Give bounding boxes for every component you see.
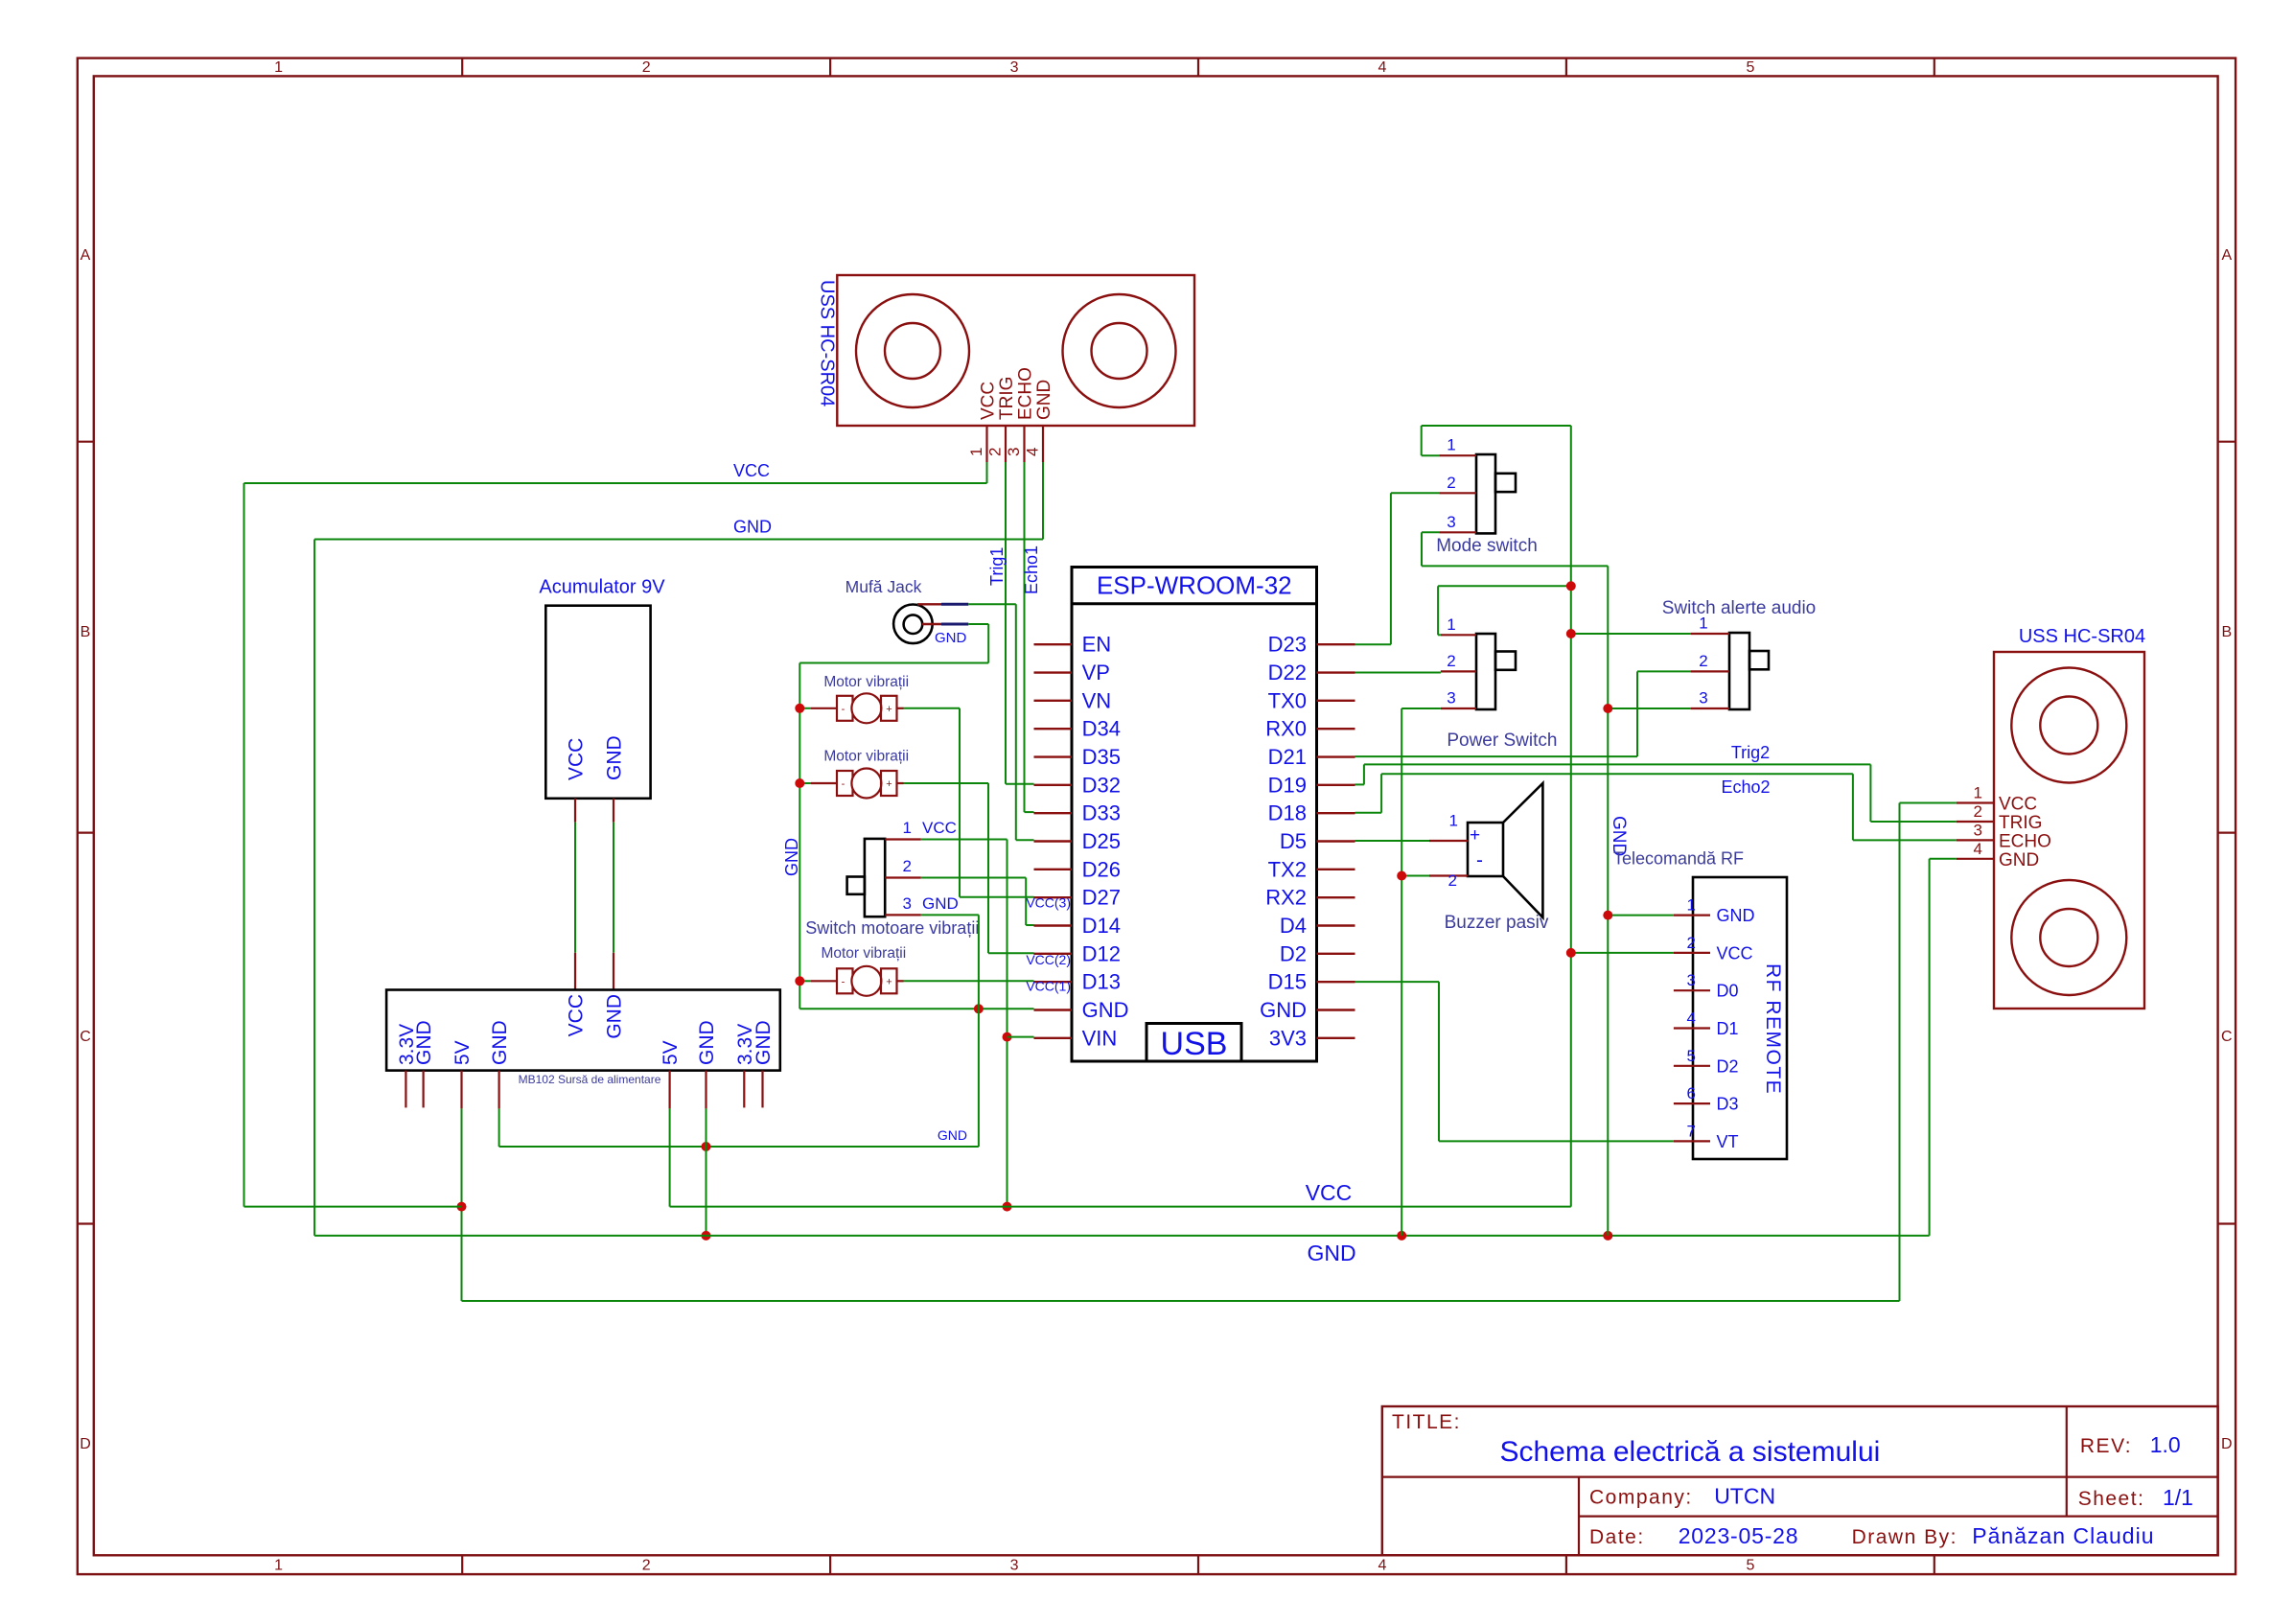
switch SW2 Power Switch xyxy=(1441,634,1516,709)
svg-text:VCC: VCC xyxy=(566,994,588,1036)
wire VCC right vertical xyxy=(1570,426,1572,1207)
wire jack sleeve to GND vertical xyxy=(799,624,988,663)
svg-text:D35: D35 xyxy=(1082,745,1121,769)
svg-text:1.0: 1.0 xyxy=(2150,1432,2181,1457)
junction VCC bus / SW4 pin1 vertical xyxy=(1003,1202,1012,1212)
wire GND bus xyxy=(314,1235,1930,1237)
wire GND left riser xyxy=(313,540,315,1236)
ultrasonic sensor U1 USS HC-SR04 (top) xyxy=(837,275,1194,426)
svg-text:D13: D13 xyxy=(1082,970,1121,994)
J1 sleeve pin segments (red+navy) xyxy=(922,623,968,625)
junction VCC vertical / SW3 pin1 xyxy=(1566,629,1576,638)
svg-text:Telecomandă RF: Telecomandă RF xyxy=(1613,849,1744,869)
svg-text:Echo1: Echo1 xyxy=(1022,545,1041,594)
svg-text:1/1: 1/1 xyxy=(2163,1485,2193,1510)
svg-text:Switch alerte audio: Switch alerte audio xyxy=(1662,598,1817,618)
svg-text:3: 3 xyxy=(1010,59,1019,76)
U3 unconnected bottom stubs xyxy=(405,1071,762,1108)
wire GND horizontal top run xyxy=(314,539,1043,541)
svg-text:Switch motoare vibrații: Switch motoare vibrații xyxy=(805,918,979,938)
title block xyxy=(1382,1406,2218,1555)
svg-text:+: + xyxy=(886,976,892,987)
svg-text:C: C xyxy=(2221,1029,2233,1045)
svg-text:1: 1 xyxy=(1447,615,1455,634)
wire SW2 pin3 down to GND bus xyxy=(1401,708,1441,1236)
svg-text:D0: D0 xyxy=(1717,982,1739,1001)
svg-text:VCC: VCC xyxy=(1717,943,1753,963)
wire BT1 VCC to MB102 VCC xyxy=(574,823,576,953)
U5 pin names VCC TRIG ECHO GND xyxy=(1999,795,2051,870)
wire SW3 pin1 to VCC vertical xyxy=(1571,633,1691,635)
svg-text:VCC(3): VCC(3) xyxy=(1026,895,1071,911)
svg-text:GND: GND xyxy=(604,994,626,1039)
svg-text:Date:: Date: xyxy=(1589,1526,1645,1548)
svg-text:VN: VN xyxy=(1082,688,1112,712)
U1 pin names VCC TRIG ECHO GND xyxy=(979,367,1055,420)
svg-text:D14: D14 xyxy=(1082,914,1121,938)
svg-text:A: A xyxy=(2221,247,2232,264)
BT1 pin names VCC GND xyxy=(566,735,626,780)
MB102 GND pin stub xyxy=(613,953,614,990)
svg-text:Trig1: Trig1 xyxy=(987,547,1007,586)
svg-text:D2: D2 xyxy=(1280,941,1307,965)
svg-text:Company:: Company: xyxy=(1589,1487,1693,1509)
wire jack tip to ESP D25 xyxy=(968,604,1033,840)
junction MB102 GND-right vertical crossing xyxy=(702,1142,711,1151)
junction GND bus / M3 xyxy=(795,976,804,986)
wire M2 plus to ESP D12 xyxy=(904,783,1034,953)
svg-text:VCC(2): VCC(2) xyxy=(1026,952,1071,967)
svg-text:D32: D32 xyxy=(1082,773,1121,797)
U3 top pin names VCC GND xyxy=(566,994,626,1039)
svg-text:B: B xyxy=(81,624,91,640)
U2 left pin names xyxy=(1082,633,1129,1051)
svg-text:+: + xyxy=(1470,825,1480,846)
svg-text:GND: GND xyxy=(604,735,626,780)
svg-text:2: 2 xyxy=(986,448,1005,456)
svg-text:ECHO: ECHO xyxy=(1016,367,1036,420)
svg-text:D1: D1 xyxy=(1717,1019,1739,1038)
svg-text:4: 4 xyxy=(1378,1558,1387,1574)
SW4 pin numbers 1 2 3 xyxy=(903,819,912,913)
battery BT1 Acumulator 9V xyxy=(545,606,650,799)
svg-text:D: D xyxy=(2221,1436,2233,1452)
junction GND bus / M1 xyxy=(795,704,804,713)
title block Date: 2023-05-28 xyxy=(1589,1523,1798,1548)
wire Trig2: ESP D19 to sensor2 TRIG xyxy=(1355,764,1957,822)
wire VCC bus left segment xyxy=(244,1206,462,1208)
svg-text:D34: D34 xyxy=(1082,717,1121,741)
U2 right pin stubs xyxy=(1317,644,1355,1038)
svg-text:5: 5 xyxy=(1746,1558,1754,1574)
svg-text:C: C xyxy=(80,1029,91,1045)
svg-text:2: 2 xyxy=(642,1558,651,1574)
svg-text:TRIG: TRIG xyxy=(1999,813,2042,833)
svg-text:D23: D23 xyxy=(1268,633,1307,657)
wire buzzer minus to GND vertical xyxy=(1401,875,1429,877)
svg-text:EN: EN xyxy=(1082,633,1112,657)
svg-text:Schema electrică a sistemului: Schema electrică a sistemului xyxy=(1499,1436,1880,1468)
svg-text:GND: GND xyxy=(935,630,967,646)
svg-text:D4: D4 xyxy=(1280,914,1307,938)
U3 5V-right pin stub xyxy=(668,1071,670,1109)
J1 tip pin segments (red+navy) xyxy=(917,603,968,605)
svg-text:Motor vibrații: Motor vibrații xyxy=(823,749,909,765)
svg-text:VCC: VCC xyxy=(1306,1180,1353,1205)
junction GND bus / GND-right xyxy=(702,1231,711,1241)
junction VCC bus / 5V-left xyxy=(457,1202,467,1212)
svg-text:1: 1 xyxy=(1699,615,1707,633)
wire M1 plus to ESP D27 xyxy=(904,708,1034,897)
svg-text:D: D xyxy=(80,1436,91,1452)
svg-text:REV:: REV: xyxy=(2080,1435,2132,1457)
wire ESP D15 to RF VT xyxy=(1355,982,1674,1141)
svg-text:3: 3 xyxy=(1447,513,1455,531)
svg-text:4: 4 xyxy=(1974,840,1982,858)
svg-text:6: 6 xyxy=(1687,1084,1696,1102)
wire VIN tap to ESP VIN xyxy=(1008,1036,1034,1038)
power supply U3 MB102 xyxy=(386,990,780,1071)
wire RF GND to GND vertical xyxy=(1608,915,1674,916)
U2 left pin stubs xyxy=(1034,644,1073,1038)
wire BT1 GND to MB102 GND xyxy=(613,823,614,953)
svg-text:2: 2 xyxy=(1447,474,1455,492)
wire VCC left riser xyxy=(243,483,245,1207)
svg-text:GND: GND xyxy=(1999,850,2039,870)
wire M1 left to GND bus xyxy=(799,708,811,709)
svg-text:Echo2: Echo2 xyxy=(1721,777,1770,797)
svg-text:D12: D12 xyxy=(1082,941,1121,965)
svg-text:2: 2 xyxy=(1699,652,1707,670)
svg-text:1: 1 xyxy=(1687,896,1696,915)
svg-text:D15: D15 xyxy=(1268,970,1307,994)
svg-text:2: 2 xyxy=(1687,934,1696,952)
svg-text:TX0: TX0 xyxy=(1268,688,1307,712)
U4 pin numbers 1-7 xyxy=(1687,896,1696,1141)
svg-text:3: 3 xyxy=(903,894,912,913)
wire GND motor bus vertical xyxy=(799,663,800,1009)
svg-text:5V: 5V xyxy=(660,1040,682,1065)
svg-text:D2: D2 xyxy=(1717,1056,1739,1076)
wire SW2 pin1 to VCC vertical xyxy=(1438,586,1571,635)
wire M2 left to GND bus xyxy=(799,782,811,784)
wire 5V-right to VCC bus right segment xyxy=(669,1108,671,1206)
svg-text:ESP-WROOM-32: ESP-WROOM-32 xyxy=(1097,571,1292,600)
svg-text:RF REMOTE: RF REMOTE xyxy=(1762,963,1784,1095)
module U2 ESP-WROOM-32 xyxy=(1072,568,1317,1062)
svg-text:D5: D5 xyxy=(1280,829,1307,853)
wire GND right vertical xyxy=(1607,566,1609,1236)
U1 pin numbers 1 2 3 4 xyxy=(967,448,1042,456)
wire SW4 pin3 to GND (ESP GND + MB102) xyxy=(499,915,979,1147)
BT1 GND pin stub xyxy=(613,799,614,823)
junction VIN tap xyxy=(1003,1032,1012,1042)
svg-text:1: 1 xyxy=(274,1558,283,1574)
buzzer LS1 Buzzer pasiv xyxy=(1429,783,1542,917)
svg-text:1: 1 xyxy=(1447,436,1455,454)
svg-text:VCC: VCC xyxy=(979,382,999,420)
svg-text:4: 4 xyxy=(1687,1009,1696,1028)
svg-text:4: 4 xyxy=(1024,448,1042,456)
switch SW1 Mode switch xyxy=(1439,454,1516,533)
net labels VCC(3) VCC(2) VCC(1) at D27 D12 D13 xyxy=(1026,895,1071,994)
svg-text:2023-05-28: 2023-05-28 xyxy=(1679,1523,1799,1548)
svg-text:7: 7 xyxy=(1687,1122,1696,1140)
svg-text:Motor vibrații: Motor vibrații xyxy=(821,945,906,962)
svg-text:GND: GND xyxy=(1034,380,1054,420)
svg-text:USS HC-SR04: USS HC-SR04 xyxy=(817,280,838,406)
wire SW3 pin2 to ESP D21 xyxy=(1355,671,1691,756)
svg-text:ECHO: ECHO xyxy=(1999,831,2051,851)
svg-text:VCC: VCC xyxy=(733,461,770,480)
title block Drawn By: Panazan Claudiu xyxy=(1852,1523,2155,1548)
svg-text:GND: GND xyxy=(1717,906,1755,925)
U1 pin stubs 1-4 xyxy=(987,426,1044,462)
svg-text:2: 2 xyxy=(1447,652,1455,670)
svg-text:3: 3 xyxy=(1005,448,1023,456)
title block Company: UTCN xyxy=(1589,1484,1775,1509)
svg-text:VCC: VCC xyxy=(566,738,588,780)
title block Sheet: 1/1 xyxy=(2078,1485,2193,1510)
junction VCC vertical / SW2 pin1 xyxy=(1566,581,1576,591)
SW1 pin numbers 1 2 3 xyxy=(1447,436,1455,531)
svg-text:GND: GND xyxy=(1260,998,1307,1022)
junction GND vertical / SW3 pin3 xyxy=(1603,704,1612,713)
svg-text:+: + xyxy=(886,778,892,790)
U2 USB connector box xyxy=(1146,1024,1241,1062)
svg-text:3V3: 3V3 xyxy=(1269,1026,1307,1050)
svg-text:3: 3 xyxy=(1974,821,1982,839)
svg-text:1: 1 xyxy=(1974,784,1982,802)
svg-text:Sheet:: Sheet: xyxy=(2078,1488,2145,1510)
svg-text:UTCN: UTCN xyxy=(1714,1484,1775,1509)
wire SW3 pin3 to GND vertical xyxy=(1608,708,1690,709)
svg-text:GND: GND xyxy=(1307,1241,1355,1265)
svg-text:1: 1 xyxy=(967,448,985,456)
svg-text:3: 3 xyxy=(1687,971,1696,989)
svg-text:GND: GND xyxy=(782,838,801,876)
wire GND: sensor1 GND pin drop xyxy=(1042,462,1044,540)
wire Echo2: ESP D18 to sensor2 ECHO xyxy=(1355,774,1957,840)
svg-text:TITLE:: TITLE: xyxy=(1392,1411,1461,1433)
svg-text:Mode switch: Mode switch xyxy=(1436,536,1538,556)
LS1 pin numbers 1 2 xyxy=(1448,812,1458,891)
svg-text:TRIG: TRIG xyxy=(997,377,1017,420)
svg-text:Trig2: Trig2 xyxy=(1731,743,1770,762)
svg-text:GND: GND xyxy=(696,1020,718,1065)
U3 GND-left pin stub xyxy=(498,1071,499,1109)
svg-text:D22: D22 xyxy=(1268,661,1307,684)
U5 pin numbers 1 2 3 4 xyxy=(1974,784,1982,858)
junction motor bus / switch pin3 vertical at ESP GND xyxy=(974,1004,984,1013)
svg-text:-: - xyxy=(842,704,845,715)
U2 right pin names xyxy=(1260,633,1307,1051)
svg-text:USS HC-SR04: USS HC-SR04 xyxy=(2019,626,2145,647)
svg-text:VP: VP xyxy=(1082,661,1110,684)
svg-text:-: - xyxy=(842,778,845,790)
LS1 polarity marks + - xyxy=(1470,825,1483,871)
junction GND bus / right GND vertical xyxy=(1603,1231,1612,1241)
svg-text:D18: D18 xyxy=(1268,801,1307,825)
wire RF VCC to VCC vertical xyxy=(1571,952,1674,954)
junction VCC vertical / RF VCC xyxy=(1566,948,1576,958)
wire Echo1: sensor1 ECHO to ESP D33 xyxy=(1025,462,1034,812)
wire Trig1: sensor1 TRIG to ESP D32 xyxy=(1006,462,1034,784)
U3 bottom pin names 3.3V GND 5V GND 5V GND 3.3V GND xyxy=(396,1020,775,1065)
svg-text:5V: 5V xyxy=(452,1040,474,1065)
svg-text:GND: GND xyxy=(1082,998,1129,1022)
wire 5V-left to VCC bus and bottom VCC run xyxy=(462,1108,1900,1301)
svg-text:D3: D3 xyxy=(1717,1095,1739,1114)
motor M2 Motor vibratii (middle) xyxy=(811,769,904,799)
switch SW4 Switch motoare vibratii xyxy=(847,839,921,916)
svg-text:Buzzer pasiv: Buzzer pasiv xyxy=(1445,913,1549,933)
svg-text:RX2: RX2 xyxy=(1265,886,1307,910)
svg-text:B: B xyxy=(2221,624,2232,640)
wire SW2 pin2 to ESP D22 xyxy=(1355,672,1441,674)
junction GND vertical / buzzer minus xyxy=(1397,871,1406,881)
U3 5V-left pin stub xyxy=(460,1071,462,1109)
svg-text:USB: USB xyxy=(1161,1026,1228,1062)
connector J1 Mufa Jack (DC barrel jack) xyxy=(893,605,933,644)
svg-text:VCC(1): VCC(1) xyxy=(1026,979,1071,994)
svg-text:2: 2 xyxy=(903,857,912,875)
svg-text:D21: D21 xyxy=(1268,745,1307,769)
svg-text:-: - xyxy=(842,976,845,987)
wire SW1 pin3 to GND vertical xyxy=(1422,532,1608,566)
U3 GND-right pin stub xyxy=(705,1071,706,1109)
wire ESP D5 to buzzer plus xyxy=(1355,840,1430,842)
svg-text:VIN: VIN xyxy=(1082,1026,1118,1050)
svg-text:VCC: VCC xyxy=(1999,795,2037,815)
wire SW1 pin1 to VCC vertical xyxy=(1422,426,1571,455)
svg-text:GND: GND xyxy=(733,518,772,537)
svg-text:Drawn By:: Drawn By: xyxy=(1852,1526,1957,1548)
svg-text:3: 3 xyxy=(1447,689,1455,708)
svg-text:+: + xyxy=(886,704,892,715)
svg-text:4: 4 xyxy=(1378,59,1387,76)
wire ESP GND row from motor bus xyxy=(799,1008,1033,1009)
svg-text:A: A xyxy=(81,247,91,264)
svg-text:GND: GND xyxy=(753,1020,775,1065)
wire SW4 pin2 to ESP D14 xyxy=(921,878,1034,926)
svg-text:VCC: VCC xyxy=(922,819,957,837)
ultrasonic sensor U5 USS HC-SR04 (right) xyxy=(1994,652,2144,1009)
svg-text:5: 5 xyxy=(1746,59,1754,76)
svg-text:5: 5 xyxy=(1687,1047,1696,1065)
svg-text:3: 3 xyxy=(1699,689,1707,708)
switch SW3 Switch alerte audio xyxy=(1691,633,1769,709)
MB102 VCC pin stub xyxy=(574,953,576,990)
svg-text:RX0: RX0 xyxy=(1265,717,1307,741)
svg-text:D26: D26 xyxy=(1082,857,1121,881)
svg-text:2: 2 xyxy=(642,59,651,76)
svg-text:D25: D25 xyxy=(1082,829,1121,853)
wire SW4 pin1 to VIN vertical xyxy=(921,840,1008,1207)
svg-text:1: 1 xyxy=(1449,812,1458,830)
svg-text:Acumulator 9V: Acumulator 9V xyxy=(539,577,665,598)
wire VCC bus right segment xyxy=(670,1206,1571,1208)
module U4 Telecomanda RF (RF REMOTE) xyxy=(1693,877,1787,1159)
svg-text:GND: GND xyxy=(413,1020,435,1065)
svg-text:TX2: TX2 xyxy=(1268,857,1307,881)
motor M3 Motor vibratii (bottom) xyxy=(811,966,904,996)
svg-text:GND: GND xyxy=(489,1020,511,1065)
svg-text:VT: VT xyxy=(1717,1132,1739,1151)
wire VCC: sensor1 VCC pin drop xyxy=(986,462,988,483)
svg-text:3: 3 xyxy=(1010,1558,1019,1574)
wire GND-right vertical to GND bus xyxy=(706,1108,707,1236)
svg-text:Power Switch: Power Switch xyxy=(1447,731,1557,751)
svg-text:1: 1 xyxy=(274,59,283,76)
wire sensor2 VCC riser to bottom VCC run xyxy=(1900,803,1957,1302)
junction GND bus / M2 xyxy=(795,778,804,788)
title block REV: 1.0 xyxy=(2080,1432,2181,1457)
wire M3 left to GND bus xyxy=(799,980,811,982)
SW2 pin numbers 1 2 3 xyxy=(1447,615,1455,708)
U4 pin stubs 1-7 xyxy=(1674,916,1710,1142)
junction GND vertical / RF GND xyxy=(1603,911,1612,920)
svg-text:D27: D27 xyxy=(1082,886,1121,910)
svg-text:D19: D19 xyxy=(1268,773,1307,797)
svg-text:Mufă Jack: Mufă Jack xyxy=(845,577,922,596)
wire SW1 pin2 to ESP D23 xyxy=(1355,493,1440,644)
svg-text:2: 2 xyxy=(1448,871,1457,890)
svg-text:GND: GND xyxy=(938,1127,967,1143)
motor M1 Motor vibratii (top) xyxy=(811,693,904,723)
svg-text:Pănăzan Claudiu: Pănăzan Claudiu xyxy=(1972,1523,2154,1548)
svg-text:2: 2 xyxy=(1974,802,1982,821)
svg-text:-: - xyxy=(1476,849,1483,871)
wire M3 plus to ESP D13 xyxy=(904,980,1034,982)
svg-text:1: 1 xyxy=(903,819,912,837)
BT1 VCC pin stub xyxy=(574,799,576,823)
wire VCC horizontal top run xyxy=(244,482,987,484)
U5 pin stubs 1-4 xyxy=(1957,803,1994,859)
junction GND bus / power switch pin3 vertical xyxy=(1397,1231,1406,1241)
wire sensor2 GND riser to GND bus xyxy=(1930,859,1957,1236)
SW3 pin numbers 1 2 3 xyxy=(1699,615,1707,708)
svg-text:GND: GND xyxy=(922,894,959,913)
U4 pin names xyxy=(1717,906,1755,1151)
svg-text:Motor vibrații: Motor vibrații xyxy=(823,674,909,690)
svg-text:D33: D33 xyxy=(1082,801,1121,825)
svg-text:MB102 Sursă de alimentare: MB102 Sursă de alimentare xyxy=(519,1073,661,1086)
